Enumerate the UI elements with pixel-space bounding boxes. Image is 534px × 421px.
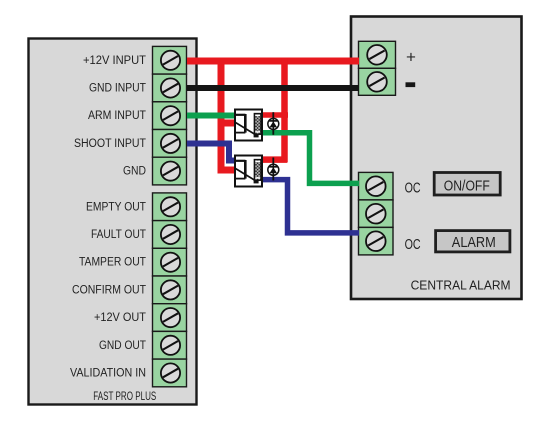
terminal FAULT OUT (pin 7) xyxy=(153,221,187,249)
svg-text:+12V INPUT: +12V INPUT xyxy=(83,55,146,67)
svg-text:CONFIRM OUT: CONFIRM OUT xyxy=(72,284,146,296)
wire blue: relay K2 coil to OC ALARM terminal xyxy=(262,180,359,233)
terminal +12V OUT (pin 10) xyxy=(153,304,187,332)
svg-text:OC: OC xyxy=(405,237,421,253)
diode D1 (flyback across K1 coil) xyxy=(268,112,279,135)
wire GND black: from GND INPUT to - of central alarm xyxy=(187,85,359,91)
terminal OC ON/OFF xyxy=(359,172,394,200)
terminal GND OUT (pin 11) xyxy=(153,331,187,359)
svg-text:EMPTY OUT: EMPTY OUT xyxy=(86,201,146,213)
svg-text:FAST PRO PLUS: FAST PRO PLUS xyxy=(93,391,156,403)
terminal CONFIRM OUT (pin 9) xyxy=(153,276,187,304)
svg-text:GND: GND xyxy=(123,166,146,178)
svg-text:ALARM: ALARM xyxy=(452,234,496,251)
svg-text:+12V OUT: +12V OUT xyxy=(94,312,146,324)
relay K1 xyxy=(235,110,262,141)
terminal +12V INPUT (pin 1) xyxy=(153,46,187,74)
wire SHOOT blue: from SHOOT INPUT to relay K2 xyxy=(187,144,236,161)
svg-text:TAMPER OUT: TAMPER OUT xyxy=(79,257,146,269)
svg-text:SHOOT INPUT: SHOOT INPUT xyxy=(74,138,146,150)
svg-text:OC: OC xyxy=(405,181,421,197)
terminal + (central alarm) xyxy=(359,41,396,68)
wire red stub into relay K1 contact xyxy=(221,120,236,127)
terminal TAMPER OUT (pin 8) xyxy=(153,248,187,276)
terminal OC ALARM xyxy=(359,227,394,255)
diode D2 (flyback across K2 coil) xyxy=(268,158,279,181)
svg-text:GND OUT: GND OUT xyxy=(99,340,146,352)
terminal middle (central alarm) xyxy=(359,200,394,228)
wire red stub relay K1 coil xyxy=(261,112,288,118)
label - (minus bar) xyxy=(406,82,416,87)
wire ARM green: from ARM INPUT to relay K1 xyxy=(187,113,236,119)
wire green: relay K1 coil to OC ON/OFF terminal xyxy=(261,133,359,184)
svg-text:FAULT OUT: FAULT OUT xyxy=(91,229,146,241)
svg-text:CENTRAL ALARM: CENTRAL ALARM xyxy=(411,278,511,293)
svg-text:VALIDATION IN: VALIDATION IN xyxy=(70,368,146,380)
central alarm enclosure xyxy=(351,17,522,300)
wire red drop B: feeds relay coils xyxy=(262,58,287,163)
relay K2 xyxy=(235,156,262,187)
terminal VALIDATION IN (pin 12) xyxy=(153,359,187,387)
terminal ARM INPUT (pin 3) xyxy=(153,102,187,130)
terminal - (central alarm) xyxy=(359,68,396,95)
terminal SHOOT INPUT (pin 4) xyxy=(153,130,187,158)
svg-text:+: + xyxy=(406,48,416,67)
wire +12V red: from +12V INPUT to + of central alarm xyxy=(187,58,359,65)
terminal EMPTY OUT (pin 6) xyxy=(153,193,187,221)
terminal GND (pin 5) xyxy=(153,157,187,185)
svg-text:ON/OFF: ON/OFF xyxy=(444,179,490,195)
terminal GND INPUT (pin 2) xyxy=(153,74,187,102)
wire red drop A: feeds relay contacts xyxy=(221,58,236,171)
module FAST PRO PLUS enclosure xyxy=(29,39,197,405)
button ON/OFF xyxy=(434,173,500,196)
svg-text:GND INPUT: GND INPUT xyxy=(89,83,146,95)
svg-text:ARM INPUT: ARM INPUT xyxy=(88,110,146,122)
button ALARM xyxy=(436,231,510,252)
